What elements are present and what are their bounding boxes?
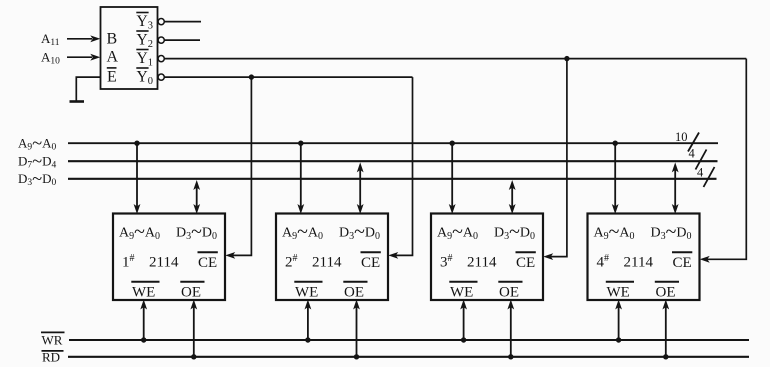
junction A bus tap for chip 1# xyxy=(134,141,139,146)
svg-text:A9~A0: A9~A0 xyxy=(594,221,635,243)
decoder U1 output Y2 label xyxy=(136,31,153,50)
bus D7~D4 line xyxy=(68,160,718,162)
bus width slash on D7~D4 xyxy=(696,150,707,170)
chip 1# pin CE label xyxy=(198,252,218,271)
decoder output bubble Y0 xyxy=(158,74,164,80)
decoder U1 output Y1 label xyxy=(136,50,153,69)
chip 3# pin WE label xyxy=(449,282,477,301)
svg-text:A9~A0: A9~A0 xyxy=(437,221,478,243)
chip 2# pin OE label xyxy=(343,282,367,301)
wire Y0 net horizontal xyxy=(164,76,412,78)
svg-text:D3~D0: D3~D0 xyxy=(651,221,692,243)
svg-text:OE: OE xyxy=(344,284,364,300)
wire RD to chip 1# OE with arrow xyxy=(190,300,197,357)
svg-text:D3~D0: D3~D0 xyxy=(339,221,380,243)
svg-text:E: E xyxy=(107,69,117,86)
svg-text:WE: WE xyxy=(450,284,473,300)
chip 3# pin OE label xyxy=(498,282,522,301)
junction Y0 to chip 1 tap xyxy=(249,74,254,79)
chip 4# pin OE label xyxy=(655,282,679,301)
wire D bus to chip 1# bidirectional double arrow xyxy=(193,180,200,214)
bus D3~D0 line xyxy=(68,178,717,180)
wire Y2 stub xyxy=(164,39,200,41)
svg-text:1#: 1# xyxy=(122,253,135,271)
control RD label (active low) xyxy=(42,350,64,365)
svg-text:A9~A0: A9~A0 xyxy=(18,134,57,154)
wire WR to chip 2# WE with arrow xyxy=(305,300,312,341)
svg-text:2114: 2114 xyxy=(624,255,654,271)
control RD line xyxy=(68,356,749,358)
svg-text:B: B xyxy=(107,31,118,48)
svg-text:Y3: Y3 xyxy=(137,13,153,32)
junction WR tap for chip 4# xyxy=(616,337,621,342)
svg-text:OE: OE xyxy=(499,284,519,300)
decoder output bubble Y3 xyxy=(158,19,164,25)
svg-text:D3~D0: D3~D0 xyxy=(494,221,535,243)
wire WR to chip 3# WE with arrow xyxy=(460,300,467,341)
RAM chip 3# 2114 box xyxy=(431,214,543,301)
wire D bus to chip 2# bidirectional double arrow xyxy=(357,162,364,214)
wire WR to chip 4# WE with arrow xyxy=(615,300,622,341)
RAM chip 2# 2114 box xyxy=(276,214,388,301)
svg-text:D3~D0: D3~D0 xyxy=(18,170,57,190)
junction A bus tap for chip 3# xyxy=(450,141,455,146)
svg-text:2114: 2114 xyxy=(467,255,497,271)
wire Y1 to chip 4 CE with arrow xyxy=(700,59,747,263)
RAM chip 4# 2114 box xyxy=(588,214,700,301)
ground xyxy=(70,100,85,103)
control WR label (active low) xyxy=(41,332,65,347)
svg-text:A: A xyxy=(107,49,119,66)
svg-text:A9~A0: A9~A0 xyxy=(119,221,160,243)
chip 1# pin OE label xyxy=(180,282,204,301)
wire D bus to chip 4# bidirectional double arrow xyxy=(672,162,679,214)
chip 3# pin CE label xyxy=(516,252,536,271)
svg-text:CE: CE xyxy=(673,255,692,271)
junction WR tap for chip 1# xyxy=(141,337,146,342)
wire A bus to chip 1# with arrow xyxy=(134,143,141,214)
svg-text:D3~D0: D3~D0 xyxy=(176,221,217,243)
decoder U1 pin E label (active low) xyxy=(107,68,117,86)
RAM chip 1# 2114 box xyxy=(113,214,225,301)
bus width slash on A9~A0 xyxy=(688,133,699,152)
wire RD to chip 3# OE with arrow xyxy=(507,300,514,357)
svg-text:A10: A10 xyxy=(41,49,60,66)
wire WR to chip 1# WE with arrow xyxy=(140,300,147,341)
bus A9~A0 line xyxy=(68,142,718,144)
wire A bus to chip 4# with arrow xyxy=(612,143,619,214)
svg-text:4: 4 xyxy=(697,166,704,180)
svg-text:2114: 2114 xyxy=(149,255,179,271)
bus width slash on D3~D0 xyxy=(704,167,715,187)
wire RD to chip 4# OE with arrow xyxy=(662,300,669,357)
junction A bus tap for chip 4# xyxy=(613,141,618,146)
chip 2# pin CE label xyxy=(361,252,381,271)
wire A11 input with arrow xyxy=(67,35,100,42)
svg-text:CE: CE xyxy=(516,255,535,271)
chip 4# pin WE label xyxy=(606,282,634,301)
junction RD tap for chip 3# xyxy=(508,354,513,359)
junction RD tap for chip 4# xyxy=(663,354,668,359)
chip 1# pin WE label xyxy=(131,282,159,301)
svg-text:WR: WR xyxy=(42,332,63,347)
svg-text:Y2: Y2 xyxy=(137,31,153,50)
svg-text:A11: A11 xyxy=(41,31,60,48)
svg-text:4: 4 xyxy=(689,147,696,161)
wire A bus to chip 3# with arrow xyxy=(449,143,456,214)
decoder output bubble Y2 xyxy=(158,37,164,43)
svg-text:Y0: Y0 xyxy=(137,68,153,87)
junction WR tap for chip 2# xyxy=(305,337,310,342)
svg-text:OE: OE xyxy=(656,284,676,300)
wire Y0 to chip 1 CE with arrow xyxy=(225,77,251,259)
svg-text:A9~A0: A9~A0 xyxy=(282,221,323,243)
chip 4# pin CE label xyxy=(672,252,692,271)
wire A bus to chip 2# with arrow xyxy=(297,143,304,214)
decoder U1 2-to-4 box xyxy=(101,7,158,89)
wire E input to ground xyxy=(76,77,100,101)
svg-text:WE: WE xyxy=(607,284,630,300)
wire Y0 to chip 2 CE with arrow xyxy=(388,77,412,259)
svg-text:OE: OE xyxy=(181,284,201,300)
wire A10 input with arrow xyxy=(67,54,100,61)
chip 2# pin WE label xyxy=(294,282,322,301)
svg-text:WE: WE xyxy=(295,284,318,300)
svg-text:2114: 2114 xyxy=(312,255,342,271)
junction Y1 to chip 3 tap xyxy=(564,56,569,61)
junction RD tap for chip 2# xyxy=(354,354,359,359)
wire Y1 net horizontal xyxy=(164,58,746,60)
svg-text:10: 10 xyxy=(675,130,688,144)
decoder U1 output Y3 label xyxy=(136,13,153,32)
control WR line xyxy=(69,339,749,341)
svg-text:WE: WE xyxy=(132,284,155,300)
wire D bus to chip 3# bidirectional double arrow xyxy=(509,180,516,214)
junction A bus tap for chip 2# xyxy=(298,141,303,146)
wire Y3 stub xyxy=(164,21,201,23)
svg-text:3#: 3# xyxy=(440,253,453,271)
svg-text:CE: CE xyxy=(198,255,217,271)
decoder U1 output Y0 label xyxy=(136,68,153,87)
svg-text:CE: CE xyxy=(361,255,380,271)
svg-text:2#: 2# xyxy=(285,253,298,271)
junction WR tap for chip 3# xyxy=(461,337,466,342)
decoder output bubble Y1 xyxy=(158,56,164,62)
svg-text:Y1: Y1 xyxy=(137,50,153,69)
wire RD to chip 2# OE with arrow xyxy=(353,300,360,357)
svg-text:4#: 4# xyxy=(597,253,610,271)
wire Y1 to chip 3 CE with arrow xyxy=(543,59,567,260)
svg-text:RD: RD xyxy=(42,350,60,365)
junction RD tap for chip 1# xyxy=(191,354,196,359)
